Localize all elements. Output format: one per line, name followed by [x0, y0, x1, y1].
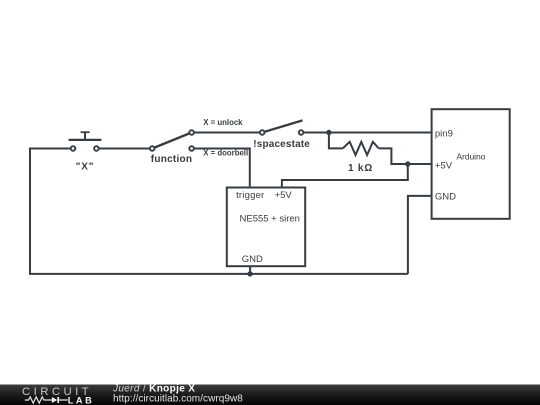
wire: resistor branch from pin9 node down and into resistor [329, 133, 343, 149]
switch SW !spacestate (SPST open) arm [262, 120, 302, 132]
switch SW function (SPDT) arm [152, 133, 191, 149]
wire: node X left rail from pushbutton to bottom ground loop [30, 149, 408, 274]
wire: pushbutton right terminal to function switch pivot [96, 148, 152, 150]
svg-text:1 kΩ: 1 kΩ [348, 163, 373, 174]
resistor R1 1 kOhm body [343, 142, 379, 155]
wire: function doorbell throw down to NE555 trigger [192, 149, 250, 188]
svg-text:trigger: trigger [236, 190, 264, 201]
wire: function unlock throw to !spacestate switch [192, 132, 263, 134]
junction: +5V node [405, 161, 410, 166]
wire: +5V node down-left to NE555 +5V pin [282, 164, 408, 188]
CircuitLab logo diode [46, 399, 52, 401]
pushbutton SW "X" actuator [69, 132, 102, 140]
IC U2 Arduino box [432, 109, 510, 219]
wire: Arduino GND left and down to ground loop [408, 196, 432, 274]
junction: pin9 / resistor node [326, 130, 331, 135]
svg-text:+5V: +5V [435, 161, 453, 172]
switch SW function pivot terminal [150, 146, 155, 151]
svg-text:Arduino: Arduino [456, 152, 485, 162]
svg-text:+5V: +5V [275, 190, 293, 201]
wire: resistor to +5V node and Arduino +5V pin [379, 148, 432, 164]
switch SW !spacestate terminals [260, 130, 265, 135]
wire: !spacestate to Arduino pin9 [301, 132, 432, 134]
svg-text:X = unlock: X = unlock [203, 118, 243, 127]
svg-text:http://circuitlab.com/cwrq9w8: http://circuitlab.com/cwrq9w8 [113, 394, 243, 405]
svg-text:GND: GND [435, 192, 456, 203]
svg-text:!spacestate: !spacestate [253, 139, 310, 150]
svg-text:pin9: pin9 [435, 128, 453, 139]
switch SW function throw terminals [189, 130, 194, 135]
wire: NE555 GND stub to ground loop [249, 266, 251, 274]
svg-text:function: function [151, 154, 192, 165]
svg-text:NE555 + siren: NE555 + siren [240, 214, 300, 225]
svg-text:"X": "X" [76, 162, 95, 173]
svg-text:LAB: LAB [68, 395, 95, 405]
junction: ground loop / NE555 GND [247, 271, 252, 276]
pushbutton SW "X" terminals [71, 146, 76, 151]
IC U1 NE555 + siren box [227, 188, 305, 267]
CircuitLab logo resistor squiggle [25, 397, 46, 403]
svg-text:GND: GND [242, 254, 263, 265]
svg-text:X = doorbell: X = doorbell [203, 148, 248, 157]
